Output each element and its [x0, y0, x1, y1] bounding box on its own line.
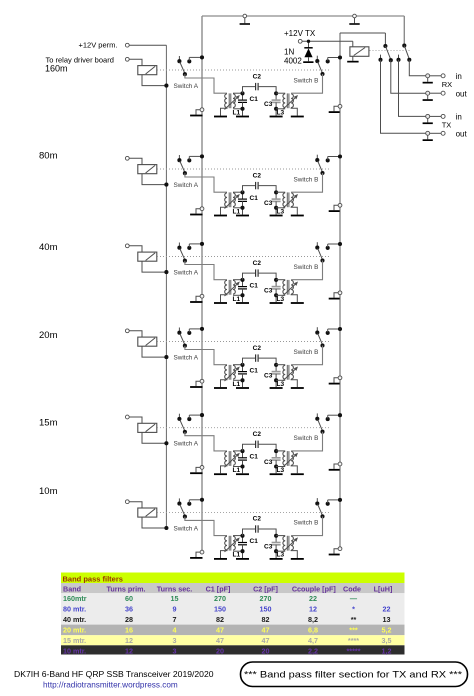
svg-text:**: ** [351, 615, 357, 624]
svg-text:+12V TX: +12V TX [284, 29, 316, 38]
svg-text:47: 47 [216, 636, 224, 645]
svg-text:47: 47 [262, 626, 270, 635]
svg-text:7: 7 [173, 615, 177, 624]
svg-text:C2: C2 [253, 73, 262, 80]
svg-text:Switch A: Switch A [174, 182, 199, 189]
svg-text:C2: C2 [253, 345, 262, 352]
svg-text:15m: 15m [39, 418, 58, 429]
svg-text:16: 16 [125, 626, 133, 635]
svg-text:*** Band pass filter section f: *** Band pass filter section for TX and … [244, 670, 462, 680]
svg-text:C3: C3 [264, 101, 273, 108]
svg-text:13: 13 [383, 615, 391, 624]
svg-text:C3: C3 [264, 459, 273, 466]
svg-text:1N: 1N [284, 48, 294, 57]
svg-text:4,7: 4,7 [308, 636, 318, 645]
svg-text:****: **** [348, 636, 359, 645]
svg-text:3: 3 [173, 646, 177, 655]
svg-text:Switch A: Switch A [174, 525, 199, 532]
svg-text:Switch B: Switch B [294, 435, 319, 442]
svg-text:4002: 4002 [284, 57, 302, 66]
svg-text:L3: L3 [277, 296, 285, 303]
svg-text:3,5: 3,5 [382, 636, 392, 645]
svg-text:Switch A: Switch A [174, 441, 199, 448]
svg-text:12: 12 [125, 646, 133, 655]
svg-text:270: 270 [214, 594, 226, 603]
svg-text:in: in [456, 72, 462, 81]
svg-text:Switch B: Switch B [294, 264, 319, 271]
svg-text:82: 82 [262, 615, 270, 624]
svg-text:15: 15 [171, 594, 179, 603]
svg-text:C1: C1 [250, 96, 259, 103]
svg-text:C2: C2 [253, 431, 262, 438]
svg-text:22: 22 [383, 605, 391, 614]
svg-text:Switch A: Switch A [174, 270, 199, 277]
svg-text:40m: 40m [39, 242, 58, 253]
svg-text:+12V perm.: +12V perm. [79, 41, 118, 50]
svg-text:C1: C1 [250, 195, 259, 202]
svg-text:C3: C3 [264, 200, 273, 207]
svg-text:Band: Band [63, 584, 81, 593]
svg-text:160m: 160m [45, 64, 68, 74]
svg-text:C1: C1 [250, 538, 259, 545]
svg-text:L1: L1 [233, 208, 241, 215]
svg-text:Switch A: Switch A [174, 83, 199, 90]
svg-text:40 mtr.: 40 mtr. [63, 615, 86, 624]
svg-text:L1: L1 [233, 109, 241, 116]
svg-text:150: 150 [214, 605, 226, 614]
svg-text:28: 28 [125, 615, 133, 624]
svg-text:http://radiotransmitter.wordpr: http://radiotransmitter.wordpress.com [43, 681, 178, 690]
svg-text:5,2: 5,2 [382, 626, 392, 635]
svg-text:4: 4 [173, 626, 177, 635]
svg-text:2,2: 2,2 [308, 646, 318, 655]
svg-text:80 mtr.: 80 mtr. [63, 605, 86, 614]
svg-text:82: 82 [216, 615, 224, 624]
svg-text:Band pass filters: Band pass filters [63, 574, 123, 583]
svg-text:15 mtr.: 15 mtr. [63, 636, 86, 645]
svg-text:Turns sec.: Turns sec. [157, 584, 192, 593]
svg-text:20: 20 [216, 646, 224, 655]
svg-text:C1: C1 [250, 367, 259, 374]
svg-text:20m: 20m [39, 330, 58, 341]
svg-text:6,8: 6,8 [308, 626, 318, 635]
svg-text:L1: L1 [233, 381, 241, 388]
svg-text:Switch B: Switch B [294, 520, 319, 527]
svg-text:60: 60 [125, 594, 133, 603]
svg-text:RX: RX [442, 80, 452, 89]
svg-text:C2: C2 [253, 260, 262, 267]
svg-text:36: 36 [125, 605, 133, 614]
svg-text:80m: 80m [39, 151, 58, 162]
svg-text:22: 22 [309, 594, 317, 603]
svg-text:160mtr: 160mtr [63, 594, 87, 603]
svg-text:L[uH]: L[uH] [374, 584, 393, 593]
svg-text:L3: L3 [277, 381, 285, 388]
svg-text:20 mtr.: 20 mtr. [63, 626, 86, 635]
svg-text:20: 20 [262, 646, 270, 655]
svg-text:C3: C3 [264, 373, 273, 380]
svg-text:12: 12 [125, 636, 133, 645]
svg-text:C1: C1 [250, 454, 259, 461]
svg-text:L1: L1 [233, 552, 241, 559]
svg-text:Switch B: Switch B [294, 349, 319, 356]
svg-text:C2 [pF]: C2 [pF] [253, 584, 278, 593]
svg-text:10m: 10m [39, 486, 58, 497]
svg-text:TX: TX [442, 121, 452, 130]
svg-text:C3: C3 [264, 288, 273, 295]
svg-text:Switch A: Switch A [174, 355, 199, 362]
svg-text:L3: L3 [277, 552, 285, 559]
svg-text:3: 3 [173, 636, 177, 645]
svg-text:C2: C2 [253, 172, 262, 179]
svg-text:*****: ***** [347, 646, 361, 655]
svg-text:47: 47 [216, 626, 224, 635]
svg-text:—: — [350, 594, 358, 603]
svg-text:in: in [456, 113, 462, 122]
svg-text:1,2: 1,2 [382, 646, 392, 655]
svg-text:8,2: 8,2 [308, 615, 318, 624]
svg-text:10 mtr.: 10 mtr. [63, 646, 86, 655]
svg-text:Code: Code [343, 584, 361, 593]
svg-text:L3: L3 [277, 109, 285, 116]
svg-text:9: 9 [173, 605, 177, 614]
svg-text:Switch B: Switch B [294, 176, 319, 183]
svg-text:Switch B: Switch B [294, 77, 319, 84]
svg-text:C3: C3 [264, 544, 273, 551]
svg-text:DK7IH 6-Band HF QRP SSB Transc: DK7IH 6-Band HF QRP SSB Transceiver 2019… [14, 669, 214, 679]
svg-text:*: * [352, 605, 355, 614]
svg-text:Ccouple [pF]: Ccouple [pF] [292, 584, 336, 593]
svg-text:L3: L3 [277, 208, 285, 215]
svg-text:L3: L3 [277, 467, 285, 474]
svg-text:out: out [456, 130, 468, 139]
svg-text:***: *** [349, 626, 358, 635]
svg-text:12: 12 [309, 605, 317, 614]
svg-text:L1: L1 [233, 467, 241, 474]
svg-text:out: out [456, 89, 468, 98]
svg-text:Turns prim.: Turns prim. [106, 584, 145, 593]
svg-text:150: 150 [260, 605, 272, 614]
svg-text:C1 [pF]: C1 [pF] [206, 584, 231, 593]
svg-text:47: 47 [262, 636, 270, 645]
svg-text:270: 270 [260, 594, 272, 603]
svg-text:L1: L1 [233, 296, 241, 303]
svg-text:C2: C2 [253, 516, 262, 523]
svg-text:C1: C1 [250, 282, 259, 289]
